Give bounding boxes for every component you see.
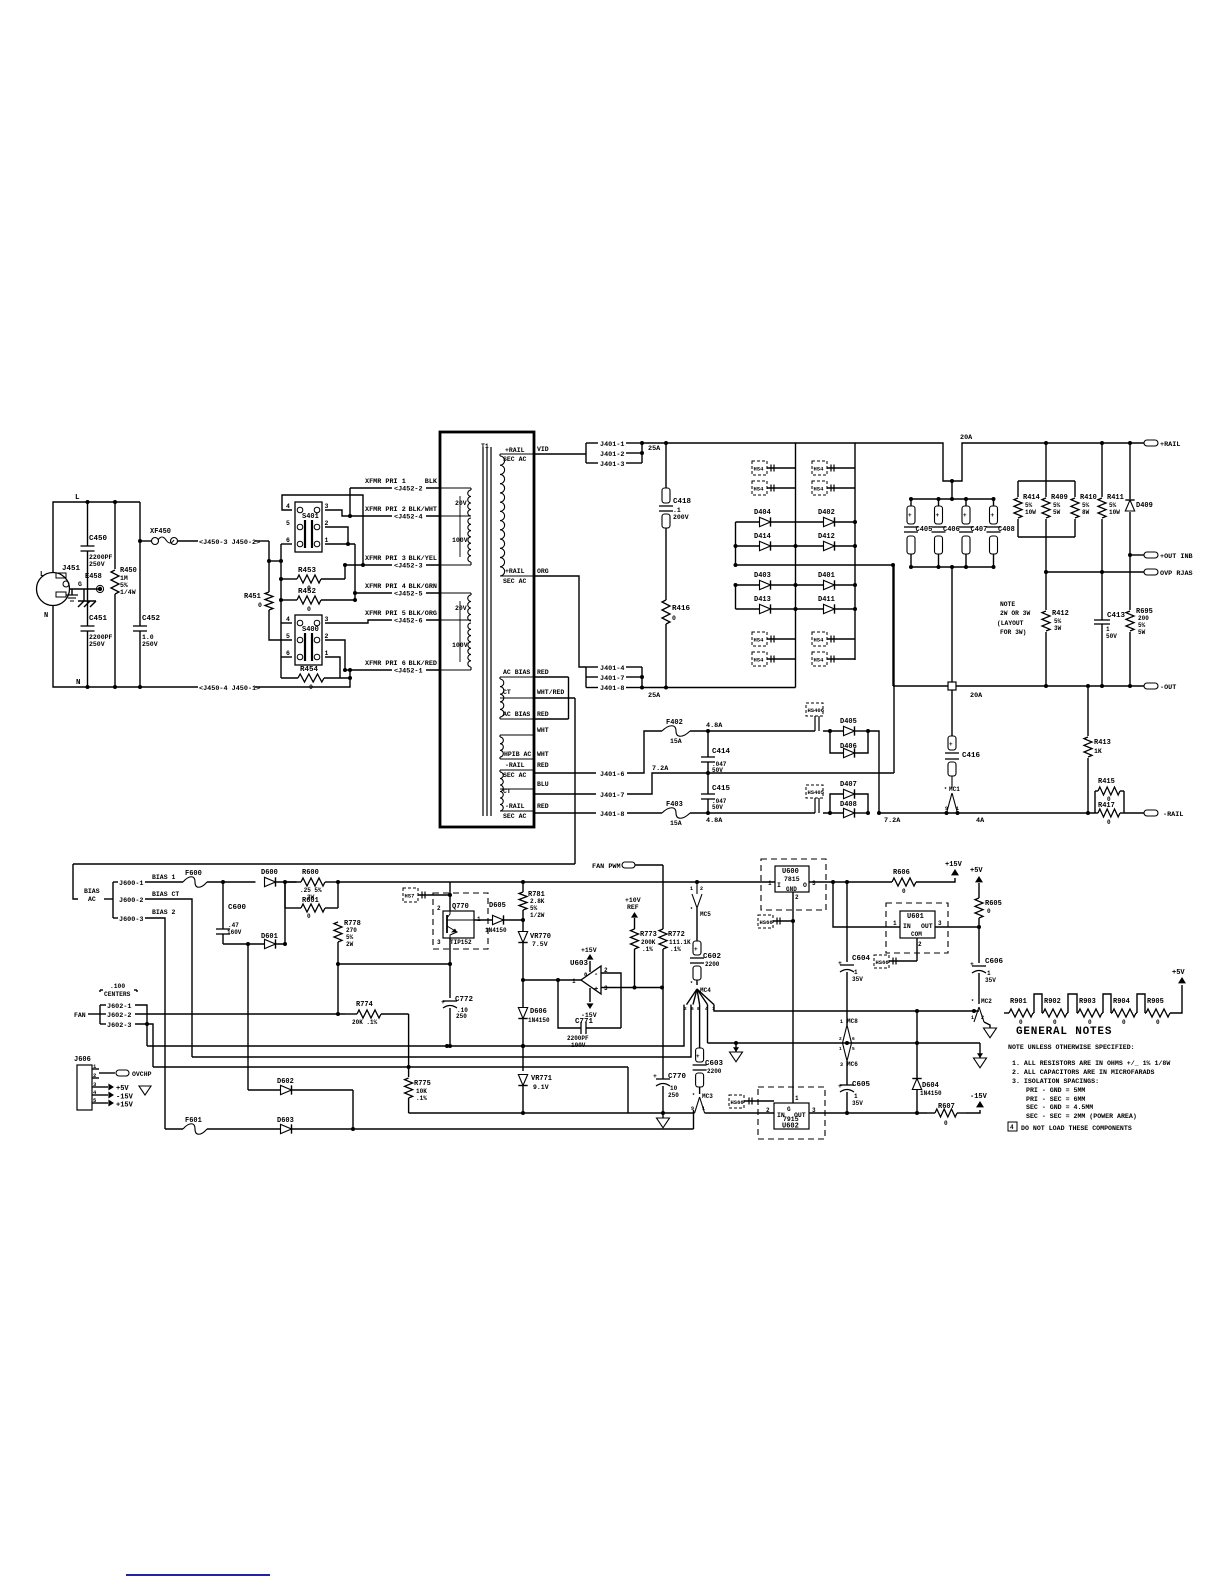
svg-text:5: 5 xyxy=(286,633,290,640)
svg-text:3. ISOLATION SPACINGS:: 3. ISOLATION SPACINGS: xyxy=(1012,1078,1099,1085)
svg-text:*: * xyxy=(690,981,693,987)
heatsink HS661 xyxy=(874,955,889,968)
resistor R411 xyxy=(1101,443,1103,497)
wire xyxy=(568,677,570,719)
wire xyxy=(1129,555,1131,605)
connector +RAIL xyxy=(1144,440,1158,446)
junction D407 bracket xyxy=(828,811,832,815)
capacitor C771 xyxy=(580,1022,582,1034)
svg-text:C407: C407 xyxy=(971,526,988,534)
svg-text:D408: D408 xyxy=(840,801,857,809)
wire xyxy=(627,773,894,794)
svg-text:C606: C606 xyxy=(985,958,1004,966)
svg-text:SEC - GND = 4.5MM: SEC - GND = 4.5MM xyxy=(1026,1104,1093,1111)
svg-text:7815: 7815 xyxy=(784,876,800,883)
resistor R781 xyxy=(522,882,524,892)
wire xyxy=(846,1092,848,1113)
junction D604 bottom xyxy=(915,1111,919,1115)
svg-text:0: 0 xyxy=(309,684,313,691)
op-amp U603 xyxy=(581,966,601,994)
wire xyxy=(139,631,141,687)
svg-text:-: - xyxy=(594,971,598,979)
svg-text:R411: R411 xyxy=(1107,494,1124,502)
svg-text:5%: 5% xyxy=(1082,502,1090,509)
capacitor C604 xyxy=(846,882,848,962)
svg-text:U600: U600 xyxy=(782,868,799,876)
svg-text:U602: U602 xyxy=(782,1123,799,1131)
svg-text:G: G xyxy=(78,581,82,588)
svg-text:C451: C451 xyxy=(89,615,108,623)
svg-text:C772: C772 xyxy=(455,996,474,1004)
wire xyxy=(135,1024,153,1067)
wire xyxy=(641,667,643,688)
footer line xyxy=(126,1574,270,1576)
wire xyxy=(879,812,1095,814)
svg-text:HS7: HS7 xyxy=(405,893,415,900)
svg-text:+RAIL: +RAIL xyxy=(505,568,525,575)
svg-text:RED: RED xyxy=(537,711,549,718)
connector MC5 xyxy=(696,882,698,894)
wire xyxy=(534,576,586,667)
wire xyxy=(699,1087,701,1094)
svg-text:3: 3 xyxy=(437,939,441,946)
svg-text:5%: 5% xyxy=(120,582,128,589)
svg-text:1: 1 xyxy=(839,1046,842,1052)
resistor R412 xyxy=(1045,572,1047,610)
capacitor C603 xyxy=(696,1048,704,1062)
power flag +5V R905 xyxy=(1178,977,1186,983)
resistor R600 xyxy=(301,878,325,886)
wire xyxy=(690,730,815,732)
heatsink HS406 xyxy=(806,703,823,716)
junction cap bank tap xyxy=(950,479,954,483)
wire xyxy=(714,1005,979,1011)
resistor R775 xyxy=(405,1078,413,1098)
svg-text:6: 6 xyxy=(852,1036,855,1042)
capacitor C405 xyxy=(910,499,912,506)
svg-text:250: 250 xyxy=(456,1013,467,1020)
primary winding 1a 20V xyxy=(468,490,471,516)
svg-text:20K .1%: 20K .1% xyxy=(352,1019,378,1026)
primary winding 1b 100V xyxy=(468,518,471,562)
resistor R410 xyxy=(1074,481,1076,497)
svg-text:FAN PWM: FAN PWM xyxy=(592,863,621,871)
wire xyxy=(269,610,292,640)
junction R454 right xyxy=(348,676,352,680)
svg-text:N: N xyxy=(44,612,48,620)
wire xyxy=(585,667,587,688)
fuse F403 xyxy=(662,808,690,819)
svg-text:MC3: MC3 xyxy=(702,1093,713,1100)
wire xyxy=(935,926,979,928)
wire xyxy=(352,1090,354,1129)
svg-text:O: O xyxy=(803,882,807,889)
capacitor C418 xyxy=(662,488,670,503)
svg-text:.100: .100 xyxy=(110,983,125,990)
svg-text:C413: C413 xyxy=(1107,612,1126,620)
svg-text:F403: F403 xyxy=(666,801,683,809)
svg-text:OVP RJAS: OVP RJAS xyxy=(1160,570,1193,578)
svg-text:1. ALL RESISTORS ARE IN OHMS +: 1. ALL RESISTORS ARE IN OHMS +/_ 1% 1/8W xyxy=(1012,1060,1170,1067)
svg-text:MC1: MC1 xyxy=(949,786,960,793)
wire xyxy=(534,453,586,455)
diode D402 xyxy=(796,521,824,523)
svg-text:5%: 5% xyxy=(1025,502,1033,509)
svg-text:D605: D605 xyxy=(489,902,506,910)
wire xyxy=(139,502,141,541)
svg-text:5%: 5% xyxy=(530,905,538,912)
junction +OUT INB xyxy=(1128,553,1132,557)
svg-text:HS4: HS4 xyxy=(754,466,765,473)
wire xyxy=(708,1042,981,1044)
wire xyxy=(1046,571,1144,573)
svg-text:J401-3: J401-3 xyxy=(600,461,624,469)
svg-text:R772: R772 xyxy=(668,931,685,939)
wire xyxy=(449,882,451,911)
svg-text:1K: 1K xyxy=(1094,748,1102,755)
wire xyxy=(601,973,621,1028)
wire xyxy=(355,592,440,594)
diode D413 xyxy=(736,608,760,610)
svg-text:HS406: HS406 xyxy=(808,707,825,714)
resistor R414 xyxy=(1017,481,1019,497)
wire xyxy=(1124,812,1144,814)
svg-text:R416: R416 xyxy=(672,605,691,613)
svg-text:25A: 25A xyxy=(648,692,661,700)
svg-text:CT: CT xyxy=(503,788,511,795)
capacitor C416 xyxy=(951,690,953,736)
junction row1113 xyxy=(521,1111,525,1115)
svg-text:8W: 8W xyxy=(1082,509,1090,516)
power flag +15V J606 xyxy=(99,1102,108,1104)
connector -OUT xyxy=(1144,683,1158,689)
resistor R905 xyxy=(1146,1009,1170,1017)
diode D407 xyxy=(844,789,855,798)
heatsink HS402 xyxy=(752,481,767,495)
wire xyxy=(1103,994,1111,1013)
svg-text:R606: R606 xyxy=(893,869,910,877)
svg-text:N: N xyxy=(76,679,81,687)
svg-text:MC5: MC5 xyxy=(700,911,711,918)
svg-text:2W: 2W xyxy=(346,941,354,948)
svg-text:J401-1: J401-1 xyxy=(600,441,624,449)
wire xyxy=(892,565,894,686)
svg-text:J401-7: J401-7 xyxy=(600,792,624,800)
heatsink HS405 xyxy=(806,785,823,798)
svg-text:-RAIL: -RAIL xyxy=(1163,811,1183,819)
svg-text:AC: AC xyxy=(88,896,96,903)
svg-text:<J452-3: <J452-3 xyxy=(394,563,423,571)
svg-text:10: 10 xyxy=(670,1085,678,1092)
wire xyxy=(281,656,292,658)
svg-text:2W OR 3W: 2W OR 3W xyxy=(1000,610,1030,617)
ground J606 xyxy=(139,1086,151,1095)
heatsink HS404 xyxy=(812,481,827,495)
svg-text:+: + xyxy=(696,1053,700,1060)
svg-text:R903: R903 xyxy=(1079,998,1096,1006)
svg-text:2: 2 xyxy=(437,905,441,912)
net label J450-3 J450-2 xyxy=(198,536,255,545)
resistor R413 xyxy=(1087,686,1089,736)
svg-text:25A: 25A xyxy=(648,445,661,453)
svg-text:+5V: +5V xyxy=(970,867,983,875)
junction D601 row xyxy=(246,942,250,946)
junction C600 top xyxy=(221,880,225,884)
junction U603 out xyxy=(521,978,525,982)
svg-text:R453: R453 xyxy=(298,567,317,575)
net flag OVCHP xyxy=(99,1072,115,1074)
svg-text:SEC AC: SEC AC xyxy=(503,772,527,779)
wire xyxy=(916,878,955,882)
resistor R605 xyxy=(978,883,980,898)
wire xyxy=(916,1011,918,1043)
svg-text:R413: R413 xyxy=(1094,739,1111,747)
wire xyxy=(53,606,320,687)
diode D604 xyxy=(916,1043,918,1078)
svg-text:+RAIL: +RAIL xyxy=(1160,441,1180,449)
svg-text:D604: D604 xyxy=(922,1082,939,1090)
wire xyxy=(281,622,292,624)
connector MC6 xyxy=(843,1043,848,1061)
wire xyxy=(135,1013,345,1015)
wire xyxy=(809,1112,927,1114)
svg-text:*: * xyxy=(971,999,974,1005)
wire xyxy=(823,812,844,814)
svg-text:PRI - GND = 5MM: PRI - GND = 5MM xyxy=(1026,1087,1085,1094)
svg-text:10W: 10W xyxy=(1025,509,1036,516)
svg-text:S401: S401 xyxy=(302,513,319,521)
svg-text:1: 1 xyxy=(702,1106,705,1112)
resistor R903 xyxy=(1078,1009,1102,1017)
svg-text:D412: D412 xyxy=(818,533,835,541)
svg-text:<J450-3 J450-2>: <J450-3 J450-2> xyxy=(199,539,260,547)
svg-text:1/4W: 1/4W xyxy=(120,589,136,596)
junction Q770 collector xyxy=(448,893,452,897)
wire xyxy=(276,882,286,944)
wire xyxy=(534,676,569,678)
wire xyxy=(665,624,667,688)
wire xyxy=(707,1005,709,1043)
svg-text:250: 250 xyxy=(668,1092,679,1099)
junction R778 bottom? xyxy=(336,962,340,966)
svg-text:-15V: -15V xyxy=(970,1093,988,1101)
svg-text:J602-2: J602-2 xyxy=(107,1012,131,1020)
junction R452/pin1 col xyxy=(353,598,357,602)
net label J450-4 J450-1 xyxy=(198,682,255,691)
wire xyxy=(735,522,737,565)
junction row1043 xyxy=(845,1041,849,1045)
svg-text:D409: D409 xyxy=(1136,502,1153,510)
svg-text:C406: C406 xyxy=(943,526,960,534)
wire xyxy=(846,1061,848,1085)
svg-text:F601: F601 xyxy=(185,1117,202,1125)
svg-text:D405: D405 xyxy=(840,718,857,726)
svg-text:MC2: MC2 xyxy=(981,998,992,1005)
svg-text:REF: REF xyxy=(627,904,639,911)
wire xyxy=(178,540,199,542)
fuse F600 xyxy=(183,877,207,888)
svg-text:HS66: HS66 xyxy=(731,1099,744,1106)
svg-text:SEC AC: SEC AC xyxy=(503,578,527,585)
junction R775 top xyxy=(407,1065,411,1069)
junction gnd stub xyxy=(734,1041,738,1045)
note 4 box xyxy=(1008,1122,1017,1131)
svg-text:10W: 10W xyxy=(1109,509,1120,516)
svg-text:J401-2: J401-2 xyxy=(600,451,624,459)
junction bus xyxy=(279,559,283,563)
wire xyxy=(449,1008,451,1046)
wire xyxy=(114,594,116,687)
svg-text:50V: 50V xyxy=(712,804,723,811)
svg-text:VR771: VR771 xyxy=(531,1075,552,1083)
svg-text:5%: 5% xyxy=(1138,622,1146,629)
diode D601 xyxy=(265,939,276,948)
svg-text:J600-2: J600-2 xyxy=(119,897,143,905)
wire xyxy=(337,882,339,908)
svg-text:+: + xyxy=(838,960,842,967)
resistor R904 xyxy=(1112,1009,1136,1017)
svg-text:1.0: 1.0 xyxy=(142,634,154,641)
secondary winding +RAIL xyxy=(500,456,505,576)
secondary winding HPIB AC xyxy=(500,737,503,757)
svg-text:HS4: HS4 xyxy=(754,657,765,664)
wire xyxy=(736,564,894,566)
capacitor C407 xyxy=(965,499,967,506)
svg-text:BIAS 1: BIAS 1 xyxy=(152,874,176,881)
svg-text:C605: C605 xyxy=(852,1081,871,1089)
svg-text:HS66: HS66 xyxy=(760,919,773,926)
svg-text:<J452-4: <J452-4 xyxy=(394,514,423,522)
junction R451 top xyxy=(267,559,271,563)
connector J451 (AC plug) xyxy=(37,573,70,606)
transformer T1 outline xyxy=(440,432,534,827)
wire xyxy=(449,938,451,964)
svg-text:200: 200 xyxy=(1138,615,1149,622)
svg-text:HS4: HS4 xyxy=(754,486,765,493)
wire xyxy=(705,1112,774,1114)
wire xyxy=(87,551,89,626)
svg-text:4: 4 xyxy=(1010,1124,1014,1131)
svg-text:+15V: +15V xyxy=(581,947,597,954)
wire xyxy=(88,1013,100,1015)
svg-text:5%: 5% xyxy=(1054,618,1062,625)
resistor R772 xyxy=(662,865,664,929)
heatsink HS407b xyxy=(812,632,827,646)
svg-text:1: 1 xyxy=(971,1015,974,1021)
diode D406 xyxy=(844,748,855,757)
svg-text:BIAS 2: BIAS 2 xyxy=(152,909,176,916)
wire xyxy=(693,1110,695,1129)
wire xyxy=(409,1112,695,1114)
svg-text:2: 2 xyxy=(918,941,922,948)
wire xyxy=(642,443,1144,481)
svg-text:1: 1 xyxy=(840,1019,843,1025)
junction dots AC input xyxy=(86,500,90,504)
svg-text:250V: 250V xyxy=(89,561,105,568)
svg-text:S400: S400 xyxy=(302,626,319,634)
junction cap bank xyxy=(950,497,954,501)
wire xyxy=(868,731,879,813)
svg-text:D401: D401 xyxy=(818,572,835,580)
wire xyxy=(642,687,796,689)
svg-text:D413: D413 xyxy=(754,596,771,604)
wire xyxy=(792,892,794,1103)
svg-text:J401-6: J401-6 xyxy=(600,771,624,779)
wire xyxy=(979,1043,981,1058)
svg-text:-OUT: -OUT xyxy=(1160,684,1176,692)
svg-text:R415: R415 xyxy=(1098,778,1115,786)
wire xyxy=(984,1022,990,1028)
resistor R453 xyxy=(297,575,321,583)
heatsink HS405b xyxy=(752,632,767,646)
resistor R454 xyxy=(298,674,324,682)
svg-text:20V: 20V xyxy=(455,605,467,612)
diode D603 xyxy=(207,1128,281,1130)
svg-text:5W: 5W xyxy=(1138,629,1146,636)
wire xyxy=(255,540,269,542)
svg-text:3: 3 xyxy=(325,616,329,623)
wire xyxy=(809,881,892,883)
svg-text:1N4150: 1N4150 xyxy=(920,1090,942,1097)
svg-text:1N4150: 1N4150 xyxy=(485,927,507,934)
resistor R450 xyxy=(111,570,119,594)
svg-text:F600: F600 xyxy=(185,870,202,878)
svg-text:SEC AC: SEC AC xyxy=(503,813,527,820)
svg-text:1: 1 xyxy=(854,1093,858,1100)
svg-text:+: + xyxy=(653,1073,657,1080)
regulator U600 dashed box xyxy=(761,859,826,910)
svg-text:7.2A: 7.2A xyxy=(884,817,901,825)
svg-text:5%: 5% xyxy=(1109,502,1117,509)
svg-text:R414: R414 xyxy=(1023,494,1040,502)
capacitor C602 xyxy=(696,908,698,941)
svg-text:WHT/RED: WHT/RED xyxy=(537,689,564,696)
svg-text:R902: R902 xyxy=(1044,998,1061,1006)
resistor R409 xyxy=(1045,481,1047,497)
svg-text:D407: D407 xyxy=(840,781,857,789)
svg-text:C415: C415 xyxy=(712,785,731,793)
svg-text:U601: U601 xyxy=(907,913,924,921)
svg-text:270: 270 xyxy=(346,927,357,934)
wire xyxy=(99,1005,101,1024)
svg-text:FOR 3W): FOR 3W) xyxy=(1000,629,1026,636)
wire xyxy=(269,560,281,562)
svg-text:0: 0 xyxy=(307,606,311,613)
capacitor C451 xyxy=(81,625,95,627)
resistor bank box xyxy=(1018,480,1075,482)
junction rail R409/R411/D409 xyxy=(1044,441,1048,445)
wire xyxy=(641,443,643,463)
svg-text:2. ALL CAPACITORS ARE IN MICRO: 2. ALL CAPACITORS ARE IN MICROFARADS xyxy=(1012,1069,1154,1076)
wire xyxy=(87,502,89,546)
svg-text:DO NOT LOAD THESE COMPONENTS: DO NOT LOAD THESE COMPONENTS xyxy=(1021,1125,1132,1132)
svg-text:R601: R601 xyxy=(302,897,319,905)
svg-text:SEC AC: SEC AC xyxy=(503,456,527,463)
svg-text:CT: CT xyxy=(503,689,511,696)
svg-text:+: + xyxy=(594,986,598,994)
junction pin1 xyxy=(346,542,350,546)
svg-text:10K: 10K xyxy=(416,1088,427,1095)
zener VR770 xyxy=(522,920,524,931)
resistor R607 xyxy=(935,1109,957,1117)
wire xyxy=(795,443,797,688)
wire xyxy=(696,980,698,985)
connector OVP RJAS xyxy=(1144,569,1158,575)
svg-text:2: 2 xyxy=(325,633,329,640)
wire xyxy=(345,669,440,671)
svg-text:OVCHP: OVCHP xyxy=(132,1071,152,1078)
svg-text:NOTE: NOTE xyxy=(1000,601,1015,608)
